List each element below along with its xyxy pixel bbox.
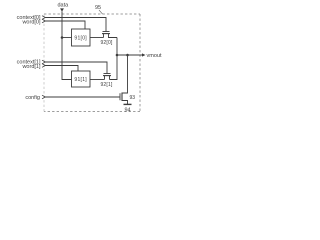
- svg-text:vmout: vmout: [147, 53, 162, 59]
- svg-text:92[0]: 92[0]: [100, 40, 113, 46]
- arrowhead: context[0] input: [42, 16, 45, 20]
- arrowhead: word[1] input: [42, 64, 45, 68]
- wire: data branch to 91[0]: [62, 37, 72, 39]
- memory cell 91[1]: [72, 71, 91, 87]
- label 95: [95, 5, 103, 14]
- memory cell 91[0]: [72, 29, 91, 46]
- node: junction to discharge transistor: [126, 54, 129, 57]
- svg-text:95: 95: [95, 5, 101, 11]
- wire: config to gate of 93: [45, 96, 120, 98]
- node: junction of data with 91[0] branch: [61, 36, 64, 39]
- wire: context[1] to gate of 92[1]: [45, 62, 107, 74]
- wire: data vertical line: [62, 12, 72, 80]
- arrowhead: context[1] input: [42, 60, 45, 64]
- wire: vmout node down to drain of 93: [122, 55, 128, 93]
- wire: 91[0] output to source of 92[0]: [90, 37, 104, 39]
- arrowhead: vmout output: [142, 53, 146, 56]
- svg-text:word[0]: word[0]: [21, 20, 41, 26]
- wire: match line vertical between drains: [110, 38, 118, 80]
- node: match line to vmout junction: [116, 54, 119, 57]
- svg-text:word[1]: word[1]: [21, 64, 41, 70]
- wire: word[1] to top of 91[1]: [45, 66, 78, 72]
- arrowhead: word[0] input: [42, 19, 45, 23]
- wire: context[0] to gate of 92[0]: [45, 18, 106, 32]
- transistor 93: [120, 93, 135, 105]
- svg-text:91[1]: 91[1]: [74, 77, 87, 83]
- ground: [124, 103, 132, 105]
- svg-text:92[1]: 92[1]: [100, 82, 113, 88]
- arrowhead: data input: [60, 8, 64, 11]
- transistor 92[0]: [100, 32, 117, 47]
- wire: 91[1] output to source of 92[1]: [90, 79, 105, 81]
- svg-text:data: data: [58, 3, 70, 9]
- transistor 92[1]: [100, 74, 113, 89]
- arrowhead: config input: [42, 95, 45, 99]
- svg-text:config: config: [25, 95, 40, 101]
- svg-text:93: 93: [130, 95, 136, 101]
- svg-text:91[0]: 91[0]: [74, 36, 87, 42]
- dashed block boundary 95: [44, 14, 140, 112]
- wire: word[0] to top of 91[0]: [45, 21, 85, 29]
- wire: vmout output line: [117, 54, 142, 56]
- svg-text:94: 94: [124, 108, 130, 114]
